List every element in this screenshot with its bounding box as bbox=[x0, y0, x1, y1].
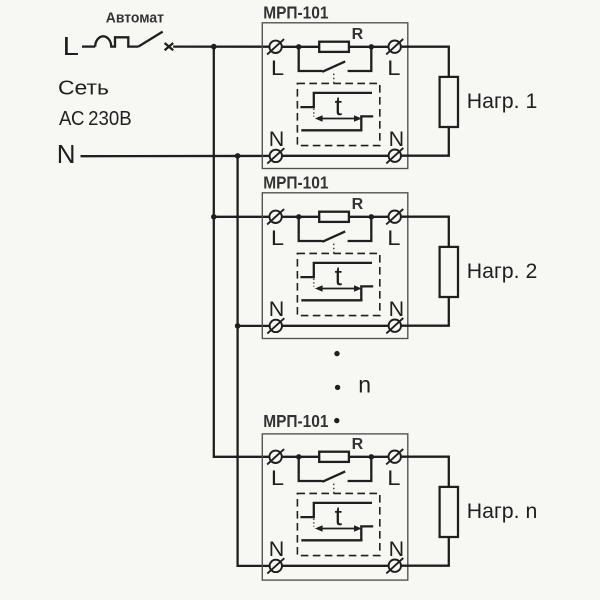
svg-text:L: L bbox=[387, 226, 400, 250]
svg-text:L: L bbox=[271, 466, 284, 490]
wire breaker to module 1 L-in bbox=[173, 45, 269, 47]
terminal L-out (module 2) bbox=[386, 209, 403, 224]
svg-text:L: L bbox=[387, 56, 400, 80]
resistor R (module 1) bbox=[319, 42, 349, 52]
svg-text:L: L bbox=[387, 466, 400, 490]
circuit breaker QF1 thermal/magnetic element bbox=[95, 36, 138, 46]
svg-text:Сеть: Сеть bbox=[58, 77, 109, 99]
module U3 box МРП-101 bbox=[262, 434, 408, 580]
timer input step waveform (module 1) bbox=[300, 93, 372, 107]
terminal L-in (module 3) bbox=[267, 449, 284, 464]
module U2 box МРП-101 bbox=[262, 193, 408, 339]
wire N-in to N-out (module 1) bbox=[282, 155, 389, 157]
svg-text:Автомат: Автомат bbox=[106, 9, 164, 26]
wire N-in to N-out (module 2) bbox=[282, 325, 389, 327]
svg-text:N: N bbox=[269, 297, 285, 321]
relay contact blade (module 1) bbox=[322, 61, 345, 71]
wire load Нагр. 2 to N-out bbox=[401, 297, 449, 326]
svg-text:L: L bbox=[63, 33, 79, 61]
relay contact K (module 3) bbox=[299, 457, 372, 481]
module U1 box МРП-101 bbox=[262, 23, 408, 169]
junction L bus / module 2 bbox=[211, 214, 217, 220]
timer dotted edge marker (module 1) bbox=[313, 109, 315, 117]
timer block dashed box (module 1) bbox=[297, 83, 379, 145]
wire L bus to module 2 L-in bbox=[214, 216, 270, 218]
timer dotted edge marker (module 3) bbox=[313, 519, 315, 527]
terminal N-in (module 2) bbox=[267, 318, 284, 333]
svg-text:МРП-101: МРП-101 bbox=[263, 172, 329, 192]
relay contact K (module 1) bbox=[299, 47, 372, 71]
relay contact blade (module 2) bbox=[322, 231, 345, 241]
wire L-in terminal to resistor (module 1) bbox=[282, 46, 319, 48]
dotted actuator link (module 2) bbox=[333, 244, 335, 254]
svg-text:R: R bbox=[352, 436, 364, 453]
timer output step waveform (module 1) bbox=[301, 116, 373, 130]
wire load Нагр. n to N-out bbox=[401, 537, 449, 566]
terminal L-out (module 3) bbox=[386, 449, 403, 464]
junction node right (module 1) bbox=[369, 44, 374, 49]
dotted actuator link (module 1) bbox=[333, 74, 335, 84]
load resistor Нагр. 2 bbox=[440, 247, 458, 297]
svg-text:N: N bbox=[269, 127, 285, 151]
load resistor Нагр. 1 bbox=[440, 77, 458, 127]
svg-text:L: L bbox=[271, 56, 284, 80]
svg-text:N: N bbox=[57, 139, 76, 169]
timer input step waveform (module 2) bbox=[300, 263, 372, 277]
wire L to breaker bbox=[82, 45, 95, 47]
ellipsis dot 2 bbox=[335, 385, 340, 390]
timer delay double arrow (module 2) bbox=[315, 285, 362, 291]
wire L-out to load Нагр. n (module 3) bbox=[401, 457, 449, 487]
dotted actuator link (module 3) bbox=[333, 484, 335, 494]
svg-text:L: L bbox=[271, 226, 284, 250]
svg-text:Нагр. 1: Нагр. 1 bbox=[467, 90, 538, 113]
svg-text:N: N bbox=[389, 127, 405, 151]
N bus vertical wire bbox=[238, 156, 270, 566]
timer delay double arrow (module 3) bbox=[315, 525, 362, 531]
wire resistor to L-out terminal (module 3) bbox=[349, 456, 389, 458]
terminal N-out (module 3) bbox=[386, 558, 403, 573]
load resistor Нагр. n bbox=[440, 487, 458, 537]
junction node left (module 2) bbox=[296, 214, 301, 219]
timer output step waveform (module 3) bbox=[301, 526, 373, 540]
junction node right (module 3) bbox=[369, 454, 374, 459]
wire N-in to N-out (module 3) bbox=[282, 565, 389, 567]
ellipsis dot 3 bbox=[334, 418, 339, 423]
circuit breaker QF1 switch blade bbox=[138, 32, 162, 47]
timer block dashed box (module 3) bbox=[297, 493, 379, 555]
junction N bus / N wire bbox=[235, 153, 241, 159]
svg-text:АС 230В: АС 230В bbox=[59, 108, 132, 130]
junction node right (module 2) bbox=[369, 214, 374, 219]
junction node left (module 3) bbox=[296, 454, 301, 459]
svg-text:t: t bbox=[335, 501, 343, 531]
junction N bus / module 2 bbox=[235, 323, 241, 329]
timer output step waveform (module 2) bbox=[301, 286, 373, 300]
timer block dashed box (module 2) bbox=[297, 253, 379, 315]
wire load Нагр. 1 to N-out bbox=[401, 127, 449, 156]
svg-text:N: N bbox=[389, 537, 405, 561]
terminal N-in (module 3) bbox=[267, 558, 284, 573]
resistor R (module 2) bbox=[319, 212, 349, 222]
terminal N-out (module 2) bbox=[386, 318, 403, 333]
wire L-out to load Нагр. 2 (module 2) bbox=[401, 217, 449, 247]
svg-text:t: t bbox=[335, 91, 343, 121]
terminal L-out (module 1) bbox=[386, 39, 403, 54]
wire L-in terminal to resistor (module 2) bbox=[282, 216, 319, 218]
junction L bus / top wire bbox=[211, 44, 217, 50]
relay contact blade (module 3) bbox=[322, 471, 345, 481]
svg-text:N: N bbox=[269, 537, 285, 561]
wire resistor to L-out terminal (module 1) bbox=[349, 46, 389, 48]
terminal L-in (module 1) bbox=[267, 39, 284, 54]
resistor R (module 3) bbox=[319, 452, 349, 462]
terminal N-out (module 1) bbox=[386, 148, 403, 163]
wire resistor to L-out terminal (module 2) bbox=[349, 216, 389, 218]
svg-text:Нагр. n: Нагр. n bbox=[467, 500, 538, 523]
svg-text:t: t bbox=[335, 261, 343, 291]
timer dotted edge marker (module 2) bbox=[313, 279, 315, 287]
wire N bus to module 2 N-in bbox=[238, 325, 270, 327]
junction node left (module 1) bbox=[296, 44, 301, 49]
svg-text:N: N bbox=[389, 297, 405, 321]
svg-text:R: R bbox=[352, 26, 364, 43]
timer input step waveform (module 3) bbox=[300, 503, 372, 517]
wire L-out to load Нагр. 1 (module 1) bbox=[401, 47, 449, 77]
terminal N-in (module 1) bbox=[267, 148, 284, 163]
svg-text:R: R bbox=[352, 196, 364, 213]
timer delay double arrow (module 1) bbox=[315, 115, 362, 121]
L bus vertical wire bbox=[214, 47, 270, 457]
svg-text:Нагр. 2: Нагр. 2 bbox=[467, 260, 538, 283]
wire N to module 1 N-in bbox=[81, 155, 270, 158]
svg-text:МРП-101: МРП-101 bbox=[263, 411, 329, 431]
relay contact K (module 2) bbox=[299, 217, 372, 241]
svg-text:МРП-101: МРП-101 bbox=[263, 2, 329, 22]
circuit breaker QF1 contact cross bbox=[165, 43, 174, 50]
svg-text:n: n bbox=[358, 371, 371, 397]
terminal L-in (module 2) bbox=[267, 209, 284, 224]
wire L-in terminal to resistor (module 3) bbox=[282, 456, 319, 458]
ellipsis dot 1 bbox=[334, 351, 339, 356]
